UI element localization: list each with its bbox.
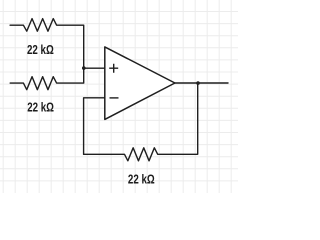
- output wire: [175, 82, 228, 84]
- node junction J1: [82, 66, 86, 70]
- wire op-amp - input to feedback node: [84, 98, 105, 155]
- feedback resistor RF (22 kΩ) with wires: [84, 83, 198, 161]
- resistor R1 (top input, 22 kΩ) with wire to junction: [10, 19, 84, 69]
- op-amp - input symbol: [110, 97, 119, 99]
- svg-text:22 kΩ: 22 kΩ: [27, 42, 54, 57]
- op-amp + input symbol: [109, 64, 118, 73]
- svg-text:22 kΩ: 22 kΩ: [27, 100, 54, 115]
- wire junction to op-amp + input: [84, 67, 105, 69]
- svg-text:22 kΩ: 22 kΩ: [128, 171, 155, 186]
- node junction J2 (output): [196, 81, 200, 85]
- op-amp U1: [105, 47, 175, 120]
- resistor R2 (bottom input, 22 kΩ) with wire up to junction: [10, 68, 84, 90]
